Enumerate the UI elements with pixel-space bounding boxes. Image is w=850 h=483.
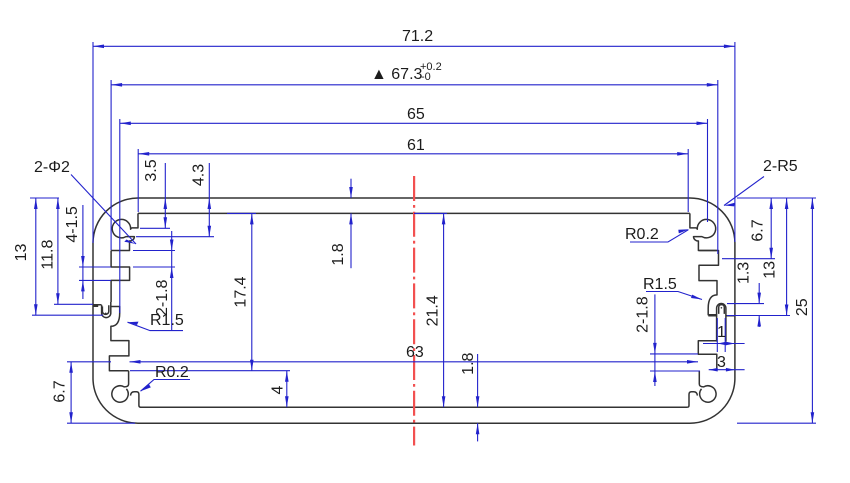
R0.2 left arrow (141, 384, 151, 391)
6.7 left dim (70, 362, 72, 423)
25 dim (811, 198, 813, 423)
svg-text:4: 4 (270, 385, 287, 394)
4 bottom (285, 371, 289, 382)
mid boss body with R1.5 fillet, tabs, slots (109, 307, 128, 371)
left side inner contour (93, 213, 140, 407)
R1.5 right arrow (691, 295, 702, 300)
svg-text:1.8: 1.8 (460, 352, 477, 374)
outer shell rounded rect (93, 198, 735, 423)
4 bottom dim (286, 371, 288, 408)
leader R1.5 left (128, 322, 184, 330)
67.3 (111, 83, 122, 87)
leader 2-R5 (724, 177, 764, 206)
1.8 top outside (349, 187, 353, 198)
1.8 bottom dim (477, 354, 479, 407)
71.2 (93, 45, 104, 49)
1.8 top dim (350, 179, 352, 198)
65 (120, 122, 131, 126)
17.4 (250, 213, 254, 224)
svg-text:4.3: 4.3 (191, 164, 208, 186)
2-1.8 right dim (654, 294, 656, 386)
4-1.5 outside arrows (81, 256, 85, 267)
svg-text:71.2: 71.2 (402, 28, 433, 45)
61 (138, 152, 149, 156)
1.3 outside (757, 293, 761, 304)
svg-text:1: 1 (717, 324, 726, 341)
screw tube inner (102, 305, 108, 314)
13 left dim (35, 198, 37, 315)
25 (811, 198, 815, 209)
21.4 (442, 213, 446, 224)
svg-text:6.7: 6.7 (52, 380, 69, 402)
svg-text:R0.2: R0.2 (625, 226, 659, 243)
63 (130, 360, 141, 364)
svg-text:R1.5: R1.5 (643, 276, 677, 293)
svg-text:2-1.8: 2-1.8 (634, 296, 651, 333)
6.7 left (69, 362, 73, 373)
leader 2-phi2 (71, 175, 136, 245)
svg-text:2-R5: 2-R5 (763, 158, 798, 175)
67.3 dim (111, 84, 718, 86)
inner top wall line (138, 212, 690, 214)
21.4 dim (443, 213, 445, 407)
bottom-left screw boss C (112, 371, 129, 402)
svg-text:65: 65 (407, 106, 425, 123)
svg-text:1.8: 1.8 (330, 243, 347, 265)
4-1.5 dim (82, 205, 84, 299)
svg-text:13: 13 (13, 244, 30, 262)
svg-text:3.5: 3.5 (143, 159, 160, 181)
3 right arrows (709, 368, 718, 372)
svg-text:R0.2: R0.2 (155, 364, 189, 381)
3.5 dim (164, 163, 166, 228)
svg-text:▲ 67.3: ▲ 67.3 (371, 66, 423, 83)
left wall upper slots (111, 251, 130, 303)
svg-text:21.4: 21.4 (424, 295, 441, 326)
top-right and bottom-right corner bosses: mirror of left ones (687, 213, 716, 407)
top-left screw boss C (phi2) (111, 213, 138, 250)
17.4 dim (251, 213, 253, 370)
R0.2 right arrow (678, 229, 689, 233)
13 left (34, 198, 38, 209)
1 right arrows (717, 342, 726, 346)
R1.5 left arrow (128, 322, 139, 325)
2-1.8 right outside (653, 343, 657, 354)
svg-text:17.4: 17.4 (233, 276, 250, 307)
svg-text:13: 13 (762, 261, 779, 279)
leader R0.2 left (141, 380, 191, 392)
svg-text:11.8: 11.8 (39, 240, 56, 270)
1.3 right dim (758, 283, 760, 304)
screw tube shelf (93, 305, 101, 307)
4.3 (208, 198, 212, 209)
inner bottom wall line (140, 406, 687, 408)
11.8 dim (57, 198, 59, 304)
svg-text:63: 63 (406, 344, 424, 361)
65 dim (120, 122, 708, 124)
svg-text:4-1.5: 4-1.5 (64, 206, 81, 243)
4.3 dim (208, 163, 210, 237)
13 right dim (786, 198, 788, 316)
screw tube outer (102, 302, 111, 318)
leader R1.5 right (646, 292, 702, 300)
svg-text:1.3: 1.3 (736, 262, 753, 284)
6.7 right dim (770, 198, 772, 259)
2-1.8 left outside arrows (170, 240, 174, 251)
2-1.8 left dim (171, 231, 173, 330)
svg-text:25: 25 (794, 298, 811, 316)
right screw channel tube (708, 304, 734, 342)
3 right dim (709, 369, 745, 371)
2-R5 arrow (724, 203, 735, 207)
svg-text:6.7: 6.7 (749, 219, 766, 241)
svg-text:61: 61 (407, 137, 425, 154)
svg-text:2-1.8: 2-1.8 (154, 279, 171, 316)
svg-text:3: 3 (717, 354, 726, 371)
11.8 (56, 198, 60, 209)
13 right (785, 198, 789, 209)
arrowheads (34, 45, 814, 435)
3.5 (164, 198, 168, 209)
leader R0.2 right (630, 230, 688, 242)
71.2 dim (93, 45, 735, 47)
63 dim (130, 361, 699, 363)
svg-text:-0: -0 (421, 71, 431, 83)
right wall slots and mid boss: 180 deg rotation of left wall (698, 251, 718, 371)
1.8 bottom outside (476, 396, 480, 407)
2-phi2 leader arrows (124, 240, 136, 245)
61 dim (138, 153, 688, 155)
6.7 right (769, 198, 773, 209)
svg-text:2-Φ2: 2-Φ2 (34, 159, 70, 176)
1 right dim (703, 343, 745, 345)
